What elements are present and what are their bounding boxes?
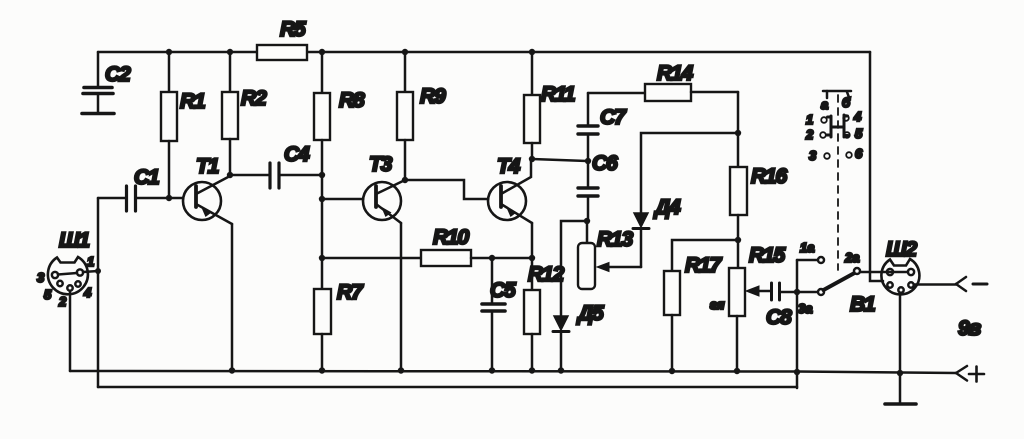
contact 1a <box>800 240 824 263</box>
svg-text:1a: 1a <box>800 240 814 255</box>
resistor R8 <box>314 52 365 258</box>
svg-text:R2: R2 <box>241 87 267 110</box>
node T3 collector junction <box>402 177 408 183</box>
wire Sh1 pin2 to ground rail <box>69 292 72 371</box>
svg-text:В1: В1 <box>850 293 875 316</box>
svg-text:5: 5 <box>44 287 52 302</box>
svg-text:R11: R11 <box>541 83 575 106</box>
svg-text:C1: C1 <box>134 166 159 189</box>
svg-text:5: 5 <box>855 126 863 141</box>
node T1 collector junction <box>227 172 233 178</box>
svg-text:R12: R12 <box>528 263 564 286</box>
svg-text:R10: R10 <box>433 226 469 249</box>
resistor R17 <box>664 240 738 370</box>
svg-text:C2: C2 <box>105 63 131 86</box>
svg-text:Ш2: Ш2 <box>886 238 917 261</box>
svg-text:R5: R5 <box>280 18 306 41</box>
wire T3 base <box>322 198 363 201</box>
wire T3 emitter to ground rail <box>400 223 403 370</box>
svg-text:Ш1: Ш1 <box>59 229 89 252</box>
node R16 bottom junction <box>735 237 741 243</box>
svg-text:R14: R14 <box>657 62 693 85</box>
wire T3 collector to T4 base <box>405 180 488 199</box>
node ground rail junctions <box>229 367 903 376</box>
node R16 upper junction <box>735 130 741 136</box>
R13 wiper arrow <box>597 263 609 272</box>
transistor T1 <box>183 155 232 224</box>
capacitor C8 <box>766 283 817 329</box>
switch linkage dashed line <box>837 95 839 270</box>
capacitor C7 <box>578 93 627 187</box>
resistor R9 <box>397 52 446 180</box>
svg-text:R16: R16 <box>751 165 787 188</box>
resistor R1 <box>161 52 205 198</box>
svg-text:C6: C6 <box>592 152 618 175</box>
resistor R14 <box>588 62 738 101</box>
wire D5 branch <box>561 221 587 316</box>
R15 wiper arrow <box>710 286 771 312</box>
node T1 base junction <box>166 195 172 201</box>
battery plus terminal <box>956 366 984 382</box>
svg-text:C4: C4 <box>284 143 310 166</box>
resistor R16 <box>730 165 787 240</box>
wire 1a branch <box>797 259 817 262</box>
svg-text:R8: R8 <box>339 89 365 112</box>
node R10/T4 emitter junction <box>529 255 535 261</box>
svg-text:3: 3 <box>809 148 817 163</box>
switch block pin numbers <box>805 109 863 163</box>
potentiometer R15 <box>729 240 785 370</box>
resistor R2 <box>222 52 267 175</box>
wire T4 emitter down <box>531 223 534 290</box>
wire 2a to Sh2 <box>860 271 888 274</box>
resistor R11 <box>524 52 575 159</box>
resistor R7 <box>314 255 364 370</box>
diode D5 <box>553 302 604 370</box>
svg-text:R9: R9 <box>420 85 446 108</box>
transistor T4 <box>488 155 532 223</box>
node C8/lower-rail junction <box>794 289 800 295</box>
svg-text:T4: T4 <box>497 155 521 178</box>
node C6 bottom junction <box>584 218 590 224</box>
node lower-rail/ground crossing <box>794 369 800 375</box>
diode D4 <box>633 196 681 267</box>
svg-text:9в: 9в <box>958 317 981 340</box>
node top rail junctions <box>166 49 535 55</box>
svg-text:T1: T1 <box>196 155 219 178</box>
svg-text:гя: гя <box>710 297 725 312</box>
ground (Sh2) <box>885 402 916 406</box>
svg-text:4: 4 <box>853 109 862 124</box>
trimmer R13 <box>578 221 633 289</box>
node T3 base junction <box>319 196 325 202</box>
svg-text:3: 3 <box>37 270 45 285</box>
capacitor C2 <box>83 52 131 112</box>
svg-text:2a: 2a <box>844 250 859 265</box>
wire Sh2 shield to ground <box>899 296 902 403</box>
svg-text:1: 1 <box>806 112 813 127</box>
svg-text:2: 2 <box>805 127 814 142</box>
svg-text:Д5: Д5 <box>576 302 604 325</box>
capacitor C6 <box>578 152 618 221</box>
resistor R5 <box>257 18 307 60</box>
svg-text:2: 2 <box>58 294 67 309</box>
ground (C2) <box>82 112 114 116</box>
transistor T3 <box>363 153 405 223</box>
switch block moving bridges <box>827 115 849 137</box>
wire 1a vertical <box>796 260 799 388</box>
node C5 junction <box>489 255 495 261</box>
resistor R12 <box>524 263 564 370</box>
wire ground rail <box>70 371 956 373</box>
node R11/T4 collector junction <box>529 156 535 162</box>
svg-text:Д4: Д4 <box>653 196 681 219</box>
node C7/C6 mid junction <box>585 158 591 164</box>
wire D4 to R13 wiper <box>601 266 641 269</box>
wire Sh2 output to minus terminal <box>914 277 987 291</box>
svg-text:С8: С8 <box>766 306 792 329</box>
svg-text:T3: T3 <box>369 153 393 176</box>
switch B1 blade <box>824 273 875 316</box>
capacitor C1 <box>98 166 182 211</box>
switch contact block top bar <box>821 91 851 112</box>
svg-text:R13: R13 <box>597 228 633 251</box>
svg-text:R15: R15 <box>749 244 785 267</box>
svg-text:6: 6 <box>855 146 863 161</box>
wire top supply rail <box>98 51 870 54</box>
svg-text:C5: C5 <box>490 279 516 302</box>
svg-text:а: а <box>821 97 828 112</box>
svg-text:R7: R7 <box>337 281 364 304</box>
svg-text:4: 4 <box>83 285 92 300</box>
contact 3a <box>798 289 824 316</box>
node Sh1 pin1 tap <box>95 268 101 274</box>
contact 2a <box>844 250 860 274</box>
node R8/C4 junction <box>319 172 325 178</box>
svg-text:3a: 3a <box>798 301 812 316</box>
svg-text:C7: C7 <box>600 106 627 129</box>
connector Sh1 <box>37 229 98 309</box>
wire lower rail <box>98 386 797 389</box>
wire right supply drop <box>870 52 883 281</box>
svg-text:1: 1 <box>87 254 94 269</box>
wire D4 top <box>641 133 738 213</box>
resistor R10 <box>322 226 532 266</box>
svg-text:R17: R17 <box>685 254 722 277</box>
svg-text:R1: R1 <box>180 90 205 113</box>
wire input line vertical <box>97 198 100 387</box>
wire T1 emitter to ground rail <box>231 224 234 370</box>
svg-text:б: б <box>842 95 851 110</box>
wire R14 to R16 <box>737 92 740 167</box>
wire collector node to C6/C7 node <box>532 159 587 161</box>
capacitor C4 <box>230 143 322 188</box>
switch block contacts 1-6 <box>820 115 852 159</box>
capacitor C5 <box>482 258 516 370</box>
connector Sh2 <box>881 238 919 294</box>
